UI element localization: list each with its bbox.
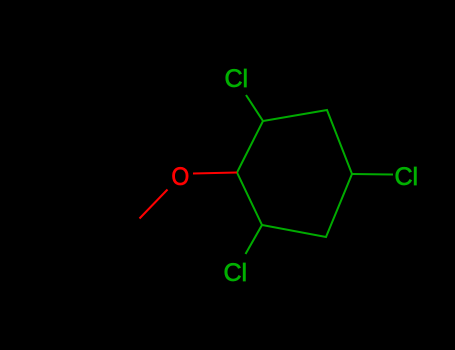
svg-text:Cl: Cl [224, 259, 248, 287]
svg-text:Cl: Cl [395, 163, 419, 191]
svg-text:Cl: Cl [225, 65, 249, 93]
svg-text:O: O [171, 163, 189, 191]
